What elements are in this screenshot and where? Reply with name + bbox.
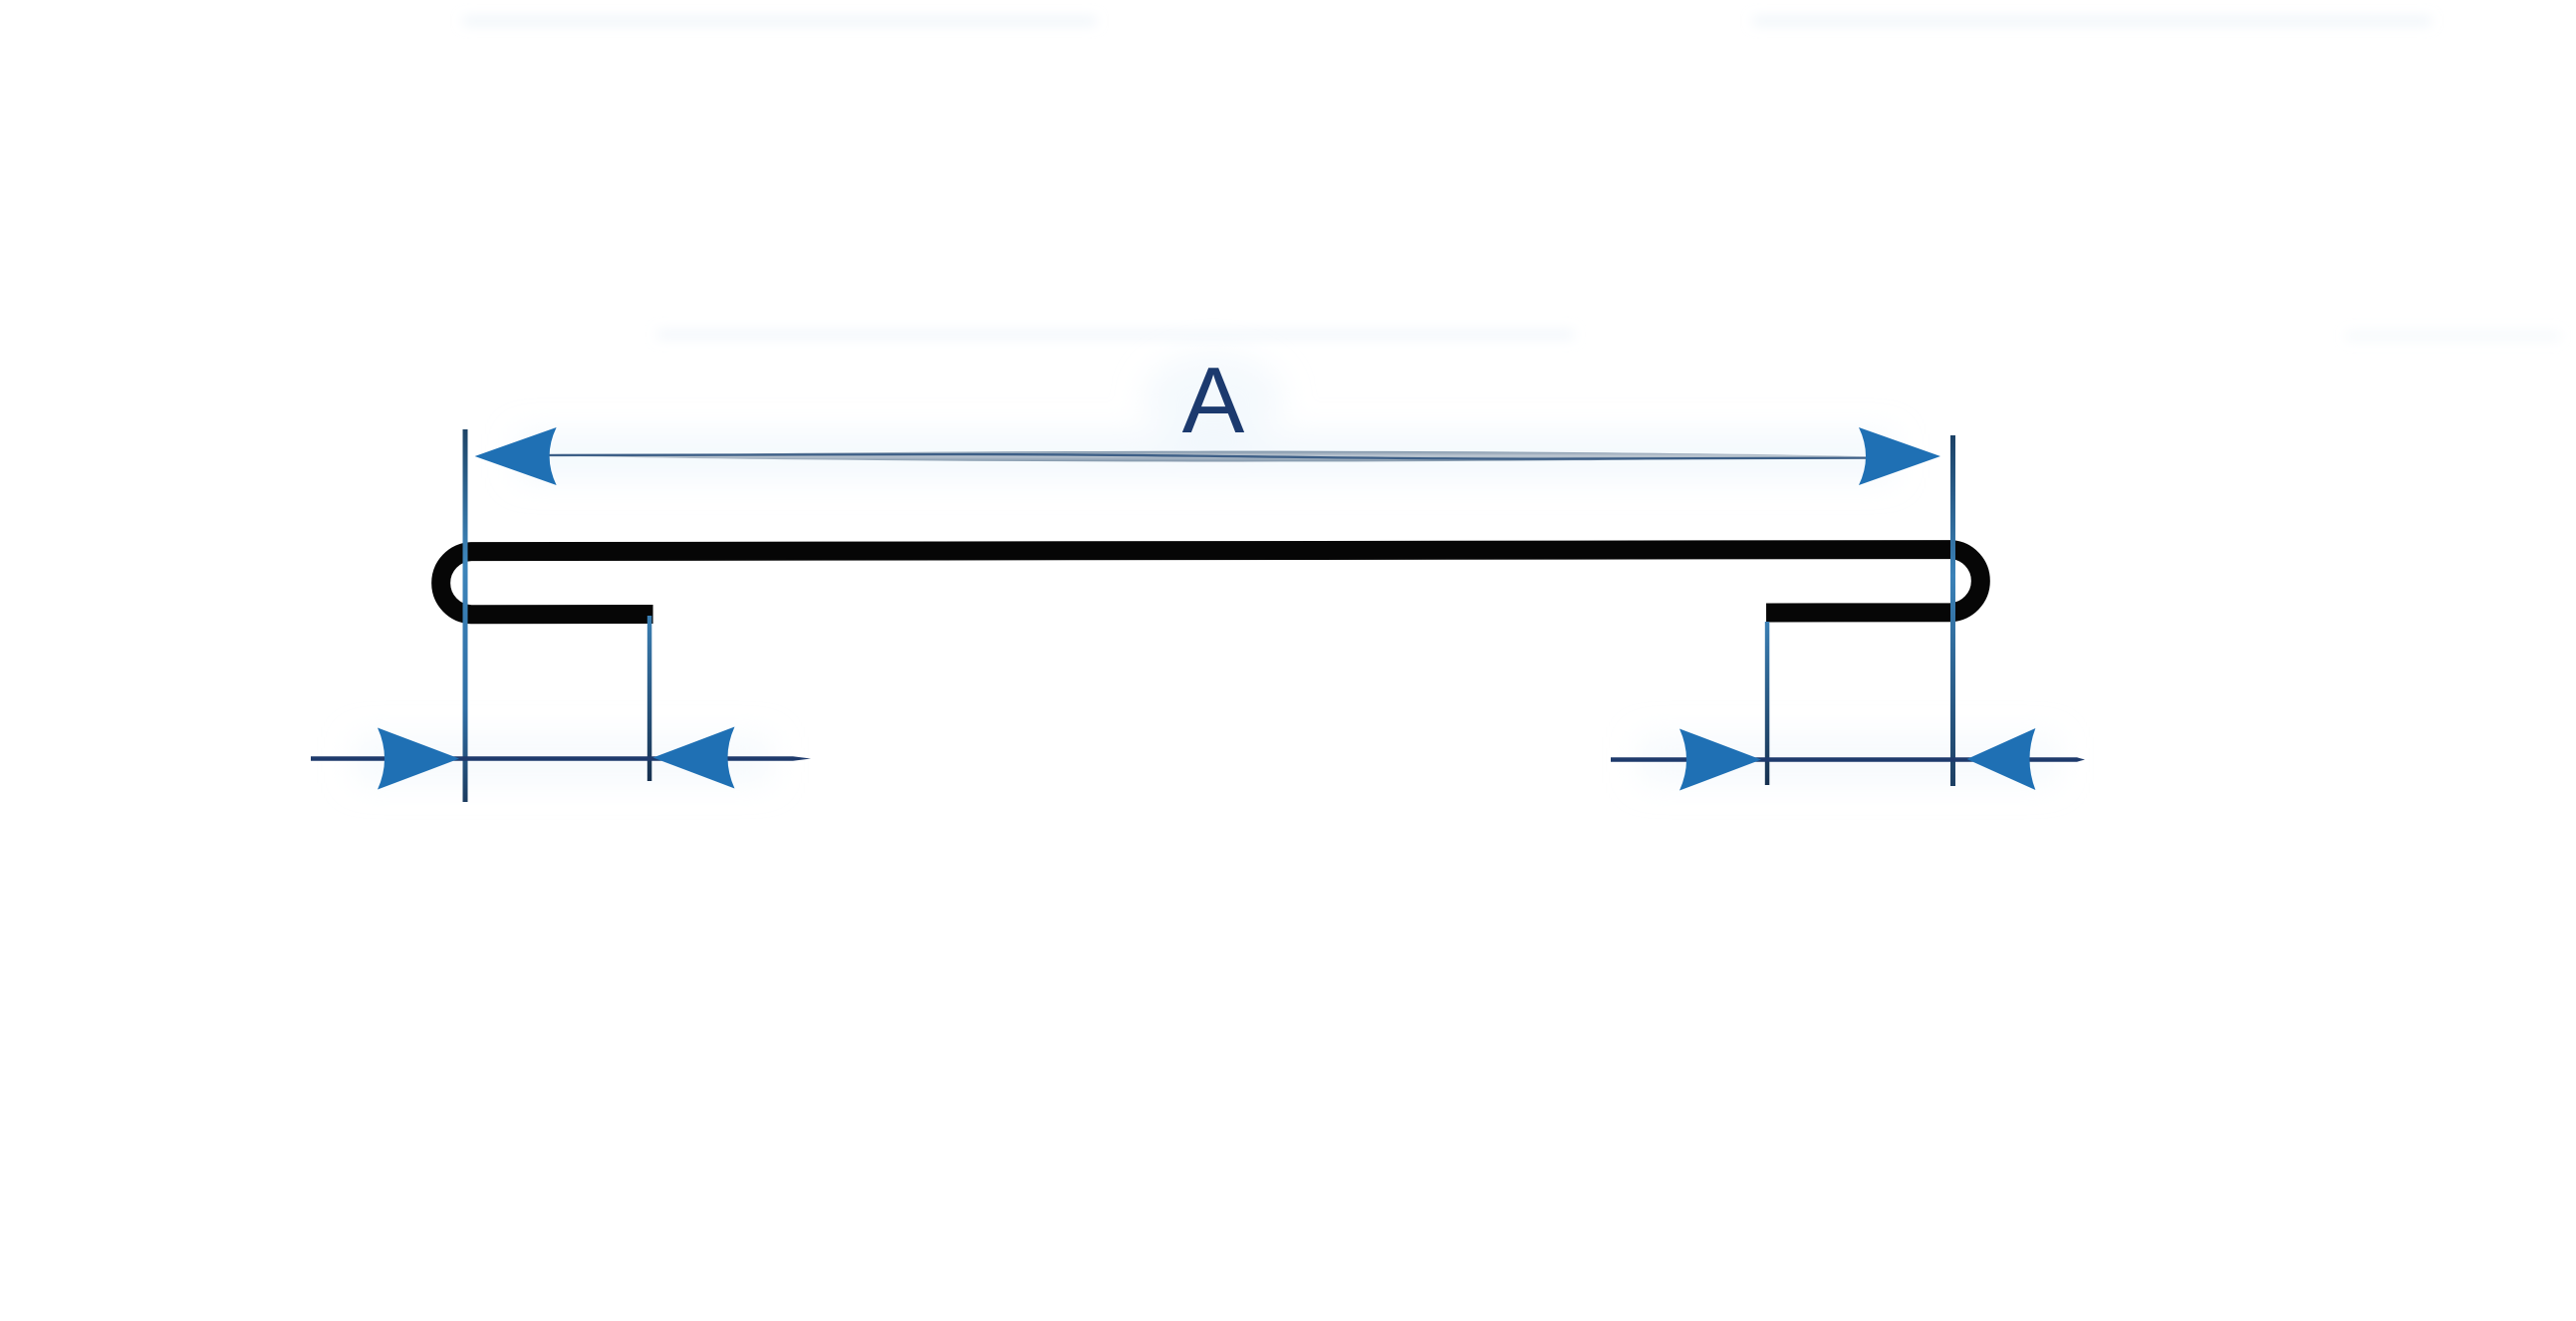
- svg-text:A: A: [1182, 348, 1245, 452]
